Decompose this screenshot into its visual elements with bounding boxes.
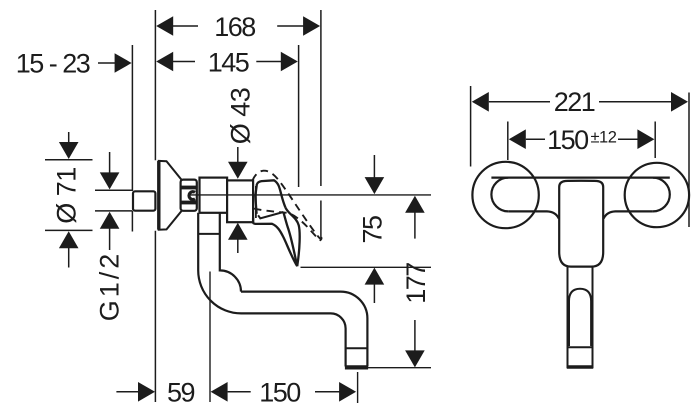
dimension G1/2 bottom arrow stem xyxy=(109,228,111,250)
dimension D43 top arrowhead xyxy=(228,162,248,179)
lower body tube left side xyxy=(567,267,569,369)
svg-text:150: 150 xyxy=(259,378,300,408)
dimension 75 top arrowhead xyxy=(365,177,385,194)
dimension D71 top reference line xyxy=(45,159,93,161)
dimension 150 line right segment xyxy=(618,138,638,140)
extension line wall face x=155 lower xyxy=(154,231,156,402)
spout joint line below body xyxy=(198,233,220,235)
handle separator line xyxy=(255,186,257,218)
reference line handle tip y=267.3 (75 dim) xyxy=(301,266,432,268)
dimension 150 line left segment xyxy=(526,138,545,140)
dimension G1/2 bottom arrowhead xyxy=(100,212,120,229)
dimension 15-23 arrowhead xyxy=(115,53,132,73)
svg-text:15 - 23: 15 - 23 xyxy=(16,49,90,79)
dimension D71 bottom arrow stem xyxy=(68,248,70,268)
spout outline xyxy=(198,213,367,367)
handle grip front view xyxy=(559,181,603,267)
dimension 221 left arrowhead xyxy=(472,92,489,112)
dimension 150 left arrowhead (points left at x=210) xyxy=(211,382,228,402)
dimension G1/2 bottom reference line xyxy=(95,210,132,212)
dimension 177 top arrowhead (points up at centerline) xyxy=(405,196,425,213)
dimension 168 right arrowhead xyxy=(303,16,320,36)
handle blade outer edge xyxy=(285,207,299,266)
svg-text:75: 75 xyxy=(358,216,388,244)
body section between nut and cartridge xyxy=(200,178,228,213)
svg-text:177: 177 xyxy=(401,263,431,304)
dimension 150 right arrowhead xyxy=(637,129,654,149)
lower body tube right side xyxy=(592,267,594,369)
escutcheon wall face thick edge xyxy=(157,161,160,230)
extension line outlet axis x=357.6 xyxy=(357,372,359,403)
body bar top edge (continuous) xyxy=(491,177,669,179)
svg-text:G1/2: G1/2 xyxy=(94,251,124,322)
dimension 145 right arrowhead xyxy=(281,52,298,72)
dimension 177 lower stem xyxy=(414,320,416,352)
svg-text:221: 221 xyxy=(554,87,595,117)
dimension D71 top arrowhead xyxy=(59,142,79,159)
extension line x=132.4 lower xyxy=(131,211,133,232)
dimension 177 upper stem xyxy=(414,212,416,239)
union nut lower facet band xyxy=(181,201,196,205)
dimension 221 line right segment xyxy=(599,101,672,103)
dimension 15-23 leader line xyxy=(98,62,117,64)
svg-text:168: 168 xyxy=(214,12,255,42)
aerator bottom thick edge xyxy=(345,365,368,369)
cartridge housing (D43) xyxy=(227,180,253,222)
reference line spout outlet y=367.7 (177 dim) xyxy=(345,367,431,369)
svg-text:Ø 43: Ø 43 xyxy=(225,88,255,145)
svg-text:145: 145 xyxy=(208,47,249,77)
handle underside sweep xyxy=(253,218,297,267)
bottom dimension line 59 left stem xyxy=(116,391,139,393)
extension line 150 left xyxy=(507,122,509,161)
dimension 168 line right segment xyxy=(277,25,304,27)
escutcheon cone (side) xyxy=(159,161,182,230)
tube inner dome arc xyxy=(569,289,591,346)
center line of mixer body xyxy=(190,194,431,196)
extension line wall face x=155 upper xyxy=(154,10,156,160)
right escutcheon circle xyxy=(625,163,689,227)
aerator joint line xyxy=(346,347,368,349)
body bar bottom edge left segment with fillet xyxy=(508,211,559,218)
dimension D43 bottom arrow stem xyxy=(237,239,239,253)
dimension 168 line left segment xyxy=(173,25,198,27)
extension line 221 right xyxy=(688,93,690,228)
svg-text:Ø 71: Ø 71 xyxy=(51,167,81,224)
dimension 75 bottom arrow stem xyxy=(373,284,375,303)
extension line x=321 lower stub to dashed lever tip xyxy=(320,201,322,239)
dashed lever raised bottom edge xyxy=(254,209,322,241)
svg-text:59: 59 xyxy=(167,378,195,408)
dimension D43 arrow stem top xyxy=(237,147,239,163)
aerator joint line front xyxy=(568,346,593,348)
dimension 75 bottom arrowhead xyxy=(365,268,385,285)
dimension 145 line right segment xyxy=(256,61,281,63)
body bar bottom edge right segment with fillet xyxy=(604,211,653,218)
dimension 145 left arrowhead xyxy=(156,52,173,72)
svg-text:±12: ±12 xyxy=(591,129,617,147)
square connection nipple G1/2 xyxy=(133,191,155,210)
dimension 177 bottom arrowhead (points down at outlet line) xyxy=(405,350,425,367)
handle inner ridge line xyxy=(258,212,283,218)
dimension D71 bottom reference line xyxy=(45,229,93,231)
extension line x=132.4 (15-23 dim) upper xyxy=(131,45,133,191)
handle knob outline xyxy=(255,180,285,214)
extension line 150 right xyxy=(654,122,656,159)
dimension 145 line left segment xyxy=(173,61,195,63)
dimension 75 top arrow stem xyxy=(373,155,375,178)
dimension G1/2 top arrowhead xyxy=(100,172,120,189)
dashed lever raised top edge xyxy=(252,171,321,240)
dimension 221 right arrowhead xyxy=(671,92,688,112)
handle blade inner edge xyxy=(283,212,297,266)
dimension D71 top arrow stem xyxy=(68,132,70,144)
union nut middle facet arc xyxy=(189,192,195,200)
extension line 221 left xyxy=(470,86,472,167)
body bar right cap xyxy=(653,178,670,212)
extension line pipe axis x=210 xyxy=(209,272,211,403)
union nut upper facet band xyxy=(181,186,196,190)
dimension 59 right-pointing arrowhead xyxy=(138,382,155,402)
extension line x=298.6 (145 dim) xyxy=(298,45,300,187)
svg-text:150: 150 xyxy=(547,125,588,155)
union nut xyxy=(181,180,197,211)
dimension 221 line left segment xyxy=(489,101,550,103)
dimension 168 left arrowhead xyxy=(156,16,173,36)
aerator bottom thick edge front xyxy=(567,365,593,369)
dimension D71 bottom arrowhead xyxy=(59,231,79,248)
dimension 150 right arrowhead xyxy=(339,382,356,402)
dimension G1/2 top reference line xyxy=(95,189,132,191)
body bar left cap xyxy=(491,178,508,212)
dimension D43 bottom arrowhead xyxy=(228,223,248,240)
left escutcheon circle xyxy=(472,162,538,228)
dimension 150 line left segment xyxy=(228,391,251,393)
extension line x=321 (168 dim) upper xyxy=(320,10,322,186)
dimension 150 left arrowhead xyxy=(509,129,526,149)
dimension 150 line right segment xyxy=(315,391,341,393)
dimension G1/2 top arrow stem xyxy=(109,152,111,173)
